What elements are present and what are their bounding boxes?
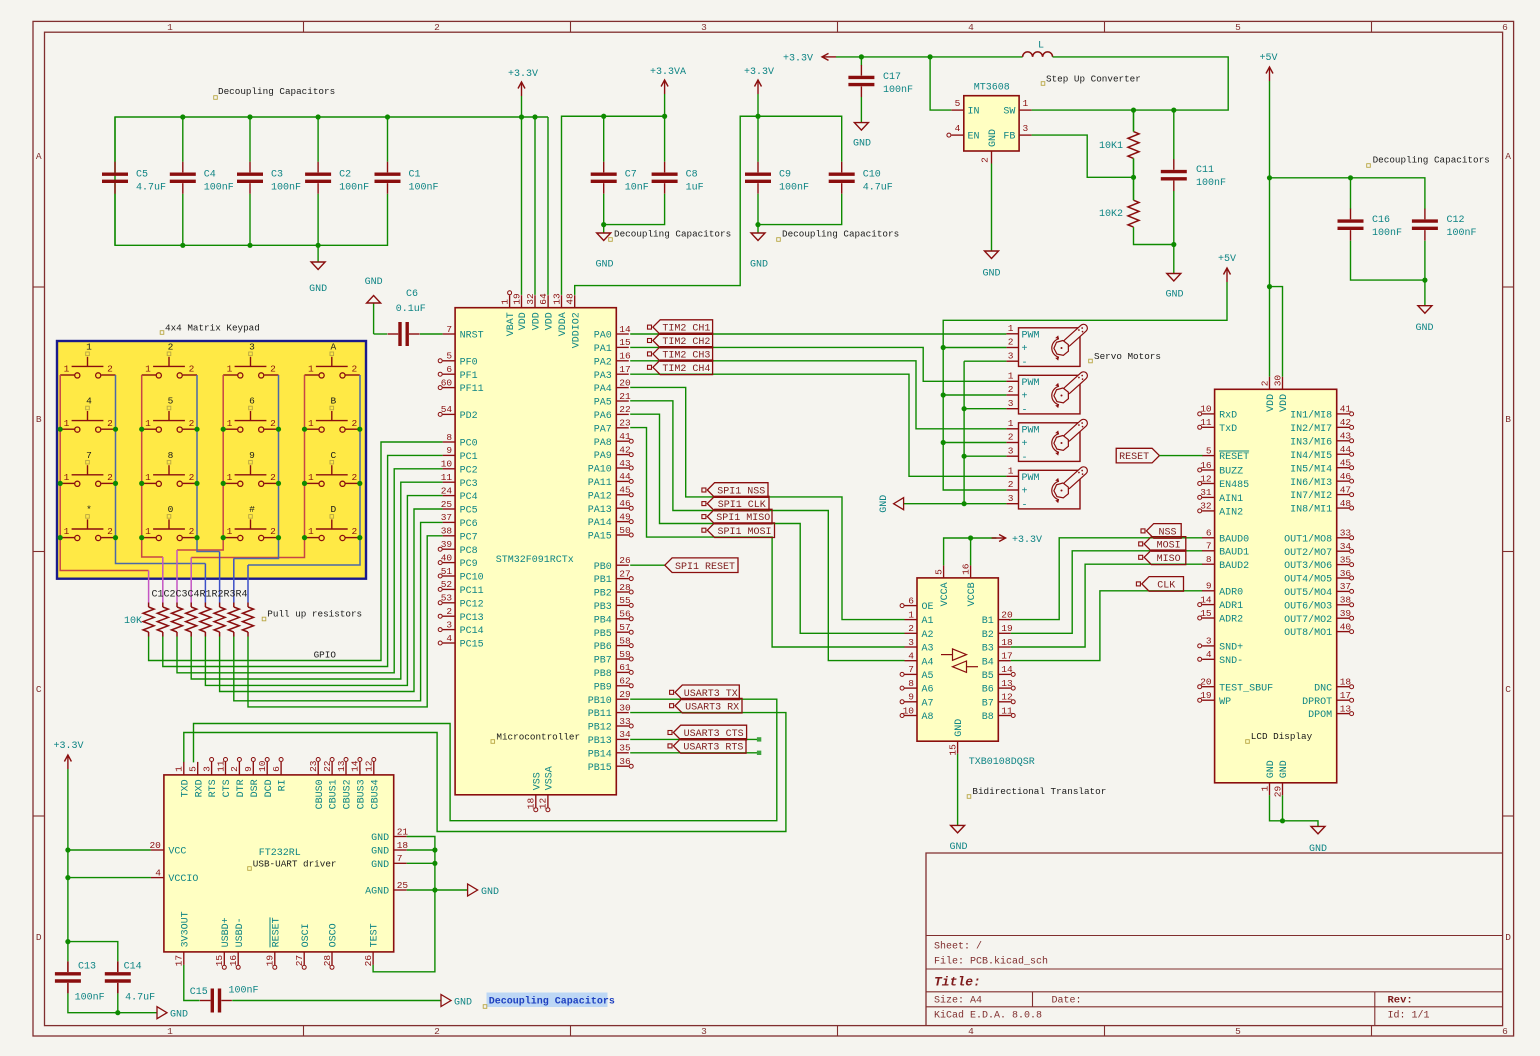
svg-text:5: 5 xyxy=(1235,1026,1241,1037)
svg-text:18: 18 xyxy=(1340,677,1352,688)
svg-text:B: B xyxy=(36,414,42,425)
svg-text:2: 2 xyxy=(107,364,113,375)
wire xyxy=(1032,57,1229,110)
svg-text:Decoupling Capacitors: Decoupling Capacitors xyxy=(614,229,731,240)
svg-text:L: L xyxy=(1038,41,1044,52)
svg-text:PD2: PD2 xyxy=(460,411,478,422)
svg-text:32: 32 xyxy=(1200,501,1212,512)
svg-text:B4: B4 xyxy=(982,657,994,668)
text note: Servo Motors xyxy=(1089,351,1161,363)
svg-text:PWM: PWM xyxy=(1022,330,1040,341)
svg-text:GND: GND xyxy=(309,284,327,295)
power +3.3VA xyxy=(650,67,686,94)
wire xyxy=(176,550,178,603)
svg-text:4: 4 xyxy=(908,651,914,662)
svg-text:100nF: 100nF xyxy=(229,986,259,997)
text note: LCD Display xyxy=(1246,731,1313,743)
svg-text:AIN2: AIN2 xyxy=(1219,508,1243,519)
wire xyxy=(964,408,1006,410)
svg-text:IN2/MI7: IN2/MI7 xyxy=(1290,423,1332,435)
svg-text:3V3OUT: 3V3OUT xyxy=(180,911,191,947)
svg-text:22: 22 xyxy=(619,404,631,415)
svg-text:RESET: RESET xyxy=(271,917,282,947)
svg-text:23: 23 xyxy=(308,760,319,772)
global label USART3 RX xyxy=(670,698,742,713)
svg-text:OUT5/MO4: OUT5/MO4 xyxy=(1284,587,1332,599)
wire xyxy=(991,164,993,252)
svg-text:GND: GND xyxy=(853,139,871,150)
svg-text:2: 2 xyxy=(351,526,357,537)
wire xyxy=(68,942,118,962)
svg-text:-: - xyxy=(1022,500,1028,511)
svg-text:30: 30 xyxy=(619,702,631,713)
wire xyxy=(1159,455,1202,457)
svg-text:IN5/MI4: IN5/MI4 xyxy=(1290,463,1332,475)
svg-text:Title:: Title: xyxy=(934,975,981,990)
svg-text:MISO: MISO xyxy=(1157,554,1181,565)
svg-text:GND: GND xyxy=(988,129,999,147)
junction xyxy=(432,847,437,852)
svg-text:PC2: PC2 xyxy=(460,465,478,476)
svg-text:D: D xyxy=(1505,932,1511,943)
svg-text:B: B xyxy=(330,396,336,407)
wire xyxy=(630,428,904,647)
svg-text:C12: C12 xyxy=(1447,215,1465,226)
svg-text:+: + xyxy=(1022,392,1028,403)
svg-text:5: 5 xyxy=(955,98,961,109)
junction xyxy=(385,114,390,119)
svg-text:VCCIO: VCCIO xyxy=(168,874,198,885)
wire xyxy=(116,375,206,564)
svg-text:26: 26 xyxy=(363,955,374,967)
svg-text:A4: A4 xyxy=(922,657,934,668)
text note: GPIO xyxy=(314,650,337,661)
svg-text:B6: B6 xyxy=(982,685,994,696)
svg-text:B2: B2 xyxy=(982,630,994,641)
wire xyxy=(184,713,786,832)
svg-text:16: 16 xyxy=(619,351,631,362)
svg-text:VDD: VDD xyxy=(518,312,529,330)
svg-text:18: 18 xyxy=(1001,637,1013,648)
svg-text:PB3: PB3 xyxy=(594,602,612,613)
svg-text:10: 10 xyxy=(1200,404,1212,415)
svg-text:B: B xyxy=(1505,414,1511,425)
svg-text:100nF: 100nF xyxy=(883,85,913,96)
power +3.3V xyxy=(744,67,774,94)
wire xyxy=(67,769,69,961)
junction xyxy=(755,222,760,227)
svg-text:BUZZ: BUZZ xyxy=(1219,467,1243,478)
capacitor C1 100nF xyxy=(375,162,439,194)
svg-text:PB13: PB13 xyxy=(588,736,612,747)
svg-text:18: 18 xyxy=(397,840,409,851)
svg-text:RXD: RXD xyxy=(194,779,205,797)
svg-text:C7: C7 xyxy=(625,169,637,180)
global label TIM2 CH3 xyxy=(648,347,713,362)
global label TIM2 CH1 xyxy=(648,320,713,335)
wire xyxy=(317,245,319,262)
svg-text:4: 4 xyxy=(955,123,961,134)
wire xyxy=(420,333,443,335)
ground label GND xyxy=(468,884,499,898)
junction xyxy=(532,114,537,119)
junction xyxy=(113,535,118,540)
connector J3 PWM servo xyxy=(1006,418,1089,464)
power +3.3V xyxy=(53,741,83,769)
buffer symbols TXB xyxy=(941,649,978,673)
svg-text:100nF: 100nF xyxy=(1372,228,1402,239)
svg-text:28: 28 xyxy=(619,582,631,593)
svg-text:14: 14 xyxy=(350,760,361,772)
svg-text:PA14: PA14 xyxy=(588,518,612,529)
svg-text:CBUS4: CBUS4 xyxy=(370,779,381,809)
svg-text:PWM: PWM xyxy=(1022,378,1040,389)
svg-text:A6: A6 xyxy=(922,685,934,696)
svg-text:17: 17 xyxy=(1001,651,1012,662)
svg-text:13: 13 xyxy=(551,293,562,305)
svg-text:6: 6 xyxy=(1502,22,1508,33)
wire xyxy=(603,116,605,162)
junction xyxy=(1131,108,1136,113)
svg-text:17: 17 xyxy=(174,955,185,966)
svg-text:6: 6 xyxy=(249,396,255,407)
svg-text:53: 53 xyxy=(441,593,453,604)
svg-text:+3.3V: +3.3V xyxy=(744,67,774,78)
wire xyxy=(930,57,951,110)
svg-text:1: 1 xyxy=(64,526,70,537)
svg-text:DPOM: DPOM xyxy=(1308,710,1332,721)
svg-text:*: * xyxy=(86,504,92,515)
svg-text:33: 33 xyxy=(619,716,631,727)
svg-text:20: 20 xyxy=(1200,677,1212,688)
svg-text:RI: RI xyxy=(278,779,289,791)
wire xyxy=(114,117,116,162)
capacitor C16 100nF xyxy=(1338,209,1403,241)
svg-text:6: 6 xyxy=(908,595,914,606)
svg-text:CLK: CLK xyxy=(1157,581,1175,592)
svg-text:16: 16 xyxy=(1200,460,1212,471)
junction xyxy=(115,1010,120,1015)
svg-text:19: 19 xyxy=(511,293,522,305)
svg-text:4: 4 xyxy=(446,633,452,644)
IC U? STM32F091RCTx xyxy=(438,291,633,812)
svg-text:IN3/MI6: IN3/MI6 xyxy=(1290,436,1332,448)
global label SPI1 RESET xyxy=(665,558,738,573)
svg-text:38: 38 xyxy=(441,526,453,537)
ground xyxy=(982,251,1000,280)
svg-text:8: 8 xyxy=(908,678,914,689)
svg-text:DCD: DCD xyxy=(264,779,275,797)
svg-text:2: 2 xyxy=(189,364,195,375)
svg-text:3: 3 xyxy=(1008,493,1014,504)
svg-text:2: 2 xyxy=(189,526,195,537)
svg-text:Decoupling Capacitors: Decoupling Capacitors xyxy=(218,86,335,97)
junction xyxy=(180,114,185,119)
svg-text:13: 13 xyxy=(1340,703,1352,714)
svg-text:Decoupling Capacitors: Decoupling Capacitors xyxy=(782,229,899,240)
svg-text:48: 48 xyxy=(1340,498,1352,509)
IC U? FT232RL xyxy=(149,758,408,970)
junction xyxy=(113,481,118,486)
svg-text:OUT4/MO5: OUT4/MO5 xyxy=(1284,574,1332,586)
power +3.3V xyxy=(992,535,1042,546)
svg-text:USBD-: USBD- xyxy=(235,917,246,947)
svg-text:ADR2: ADR2 xyxy=(1219,615,1243,626)
svg-text:PC5: PC5 xyxy=(460,506,478,517)
svg-text:5: 5 xyxy=(168,396,174,407)
wire xyxy=(194,699,777,821)
svg-text:A: A xyxy=(330,342,336,353)
wire xyxy=(1270,178,1425,209)
junction xyxy=(221,535,226,540)
svg-text:Date:: Date: xyxy=(1052,996,1082,1007)
svg-text:PC8: PC8 xyxy=(460,546,478,557)
svg-text:23: 23 xyxy=(619,418,631,429)
svg-text:GND: GND xyxy=(170,1010,188,1021)
junction xyxy=(1348,175,1353,180)
svg-text:OUT2/MO7: OUT2/MO7 xyxy=(1284,547,1332,559)
svg-text:2: 2 xyxy=(980,157,991,163)
svg-text:37: 37 xyxy=(1340,581,1351,592)
svg-text:C: C xyxy=(1505,684,1511,695)
svg-text:TIM2 CH4: TIM2 CH4 xyxy=(662,364,710,375)
global label SPI1 MISO xyxy=(702,509,772,524)
svg-text:5: 5 xyxy=(446,351,452,362)
switch SW keypad 6 xyxy=(223,396,278,433)
svg-text:PA3: PA3 xyxy=(594,371,612,382)
switch SW keypad B xyxy=(305,396,360,433)
junction xyxy=(180,243,185,248)
svg-text:16: 16 xyxy=(228,955,239,967)
svg-text:DSR: DSR xyxy=(250,779,261,797)
svg-text:GND: GND xyxy=(954,719,965,737)
svg-text:0.1uF: 0.1uF xyxy=(396,304,426,315)
wire xyxy=(970,538,972,565)
svg-text:7: 7 xyxy=(397,853,403,864)
svg-text:3: 3 xyxy=(701,22,707,33)
svg-text:PC12: PC12 xyxy=(460,599,484,610)
junction xyxy=(1422,278,1427,283)
capacitor C14 4.7uF xyxy=(105,961,155,1003)
svg-text:PA6: PA6 xyxy=(594,411,612,422)
svg-text:100nF: 100nF xyxy=(779,182,809,193)
wire xyxy=(219,552,221,603)
junction xyxy=(139,535,144,540)
svg-text:2: 2 xyxy=(1008,479,1014,490)
svg-text:PB4: PB4 xyxy=(594,615,612,626)
svg-text:B1: B1 xyxy=(982,616,994,627)
svg-text:GND: GND xyxy=(365,277,383,288)
wire xyxy=(860,97,862,123)
svg-text:14: 14 xyxy=(1001,664,1013,675)
svg-text:35: 35 xyxy=(1340,554,1352,565)
svg-text:46: 46 xyxy=(1340,471,1352,482)
svg-text:VSS: VSS xyxy=(532,772,543,790)
wire xyxy=(249,194,251,246)
power +5V xyxy=(1259,53,1277,81)
svg-text:Decoupling Capacitors: Decoupling Capacitors xyxy=(489,996,615,1008)
wire xyxy=(407,849,435,851)
svg-text:3: 3 xyxy=(908,637,914,648)
svg-text:KiCad E.D.A. 8.0.8: KiCad E.D.A. 8.0.8 xyxy=(934,1010,1042,1022)
junction xyxy=(941,345,946,350)
global label USART3 CTS xyxy=(668,725,747,740)
svg-text:7: 7 xyxy=(908,664,914,675)
svg-text:C3: C3 xyxy=(271,169,283,180)
switch SW keypad 1 xyxy=(60,342,115,379)
svg-text:GND: GND xyxy=(371,833,389,844)
junction xyxy=(928,54,933,59)
wire xyxy=(904,503,965,505)
svg-text:TXD: TXD xyxy=(180,779,191,797)
wire xyxy=(60,375,148,571)
resistor xyxy=(186,603,197,637)
svg-text:B8: B8 xyxy=(982,712,994,723)
switch SW keypad 7 xyxy=(60,450,115,487)
svg-text:VDD: VDD xyxy=(1279,394,1290,412)
svg-text:4x4 Matrix Keypad: 4x4 Matrix Keypad xyxy=(165,323,260,334)
svg-text:OSCI: OSCI xyxy=(301,923,312,947)
svg-text:41: 41 xyxy=(619,431,631,442)
svg-text:+3.3V: +3.3V xyxy=(783,54,813,65)
svg-text:5: 5 xyxy=(188,766,199,772)
wire xyxy=(943,282,1227,490)
text note: USB-UART driver xyxy=(248,859,337,871)
svg-text:3: 3 xyxy=(249,342,255,353)
svg-text:+: + xyxy=(1022,487,1028,498)
svg-text:16: 16 xyxy=(960,563,971,575)
svg-text:5: 5 xyxy=(1235,22,1241,33)
svg-text:PA13: PA13 xyxy=(588,505,612,516)
svg-text:20: 20 xyxy=(619,377,631,388)
wire xyxy=(247,565,249,603)
ground xyxy=(1415,306,1433,334)
wire xyxy=(534,117,536,295)
svg-text:26: 26 xyxy=(619,555,631,566)
svg-text:2: 2 xyxy=(434,1026,440,1037)
capacitor C5 4.7uF xyxy=(102,162,166,194)
svg-text:PC7: PC7 xyxy=(460,532,478,543)
svg-text:15: 15 xyxy=(619,337,631,348)
svg-text:PC15: PC15 xyxy=(460,640,484,651)
svg-text:PWM: PWM xyxy=(1022,425,1040,436)
svg-text:1: 1 xyxy=(174,766,185,772)
svg-text:100nF: 100nF xyxy=(339,182,369,193)
svg-text:BAUD0: BAUD0 xyxy=(1219,534,1249,545)
junction xyxy=(601,114,606,119)
svg-text:17: 17 xyxy=(619,364,630,375)
svg-text:25: 25 xyxy=(441,499,453,510)
svg-text:D: D xyxy=(330,504,336,515)
svg-text:MT3608: MT3608 xyxy=(974,83,1010,94)
svg-text:PC9: PC9 xyxy=(460,559,478,570)
svg-text:B7: B7 xyxy=(982,698,994,709)
resistor xyxy=(200,603,211,637)
svg-text:13: 13 xyxy=(1001,678,1013,689)
svg-text:2: 2 xyxy=(1259,380,1270,386)
junction xyxy=(302,535,307,540)
svg-text:PF1: PF1 xyxy=(460,371,478,382)
svg-text:PC0: PC0 xyxy=(460,439,478,450)
svg-text:2: 2 xyxy=(107,418,113,429)
svg-text:2: 2 xyxy=(351,364,357,375)
wire xyxy=(943,347,1006,349)
svg-text:USBD+: USBD+ xyxy=(221,917,232,947)
svg-text:7: 7 xyxy=(86,450,92,461)
junction xyxy=(221,427,226,432)
svg-text:3: 3 xyxy=(201,766,212,772)
svg-text:100nF: 100nF xyxy=(271,182,301,193)
resistor xyxy=(172,603,183,637)
svg-text:OUT8/MO1: OUT8/MO1 xyxy=(1284,627,1332,639)
wire xyxy=(115,117,548,245)
text note: Decoupling Capacitors xyxy=(609,229,731,242)
svg-text:1: 1 xyxy=(908,609,914,620)
svg-text:PC10: PC10 xyxy=(460,573,484,584)
svg-text:6: 6 xyxy=(1206,528,1212,539)
wire xyxy=(182,194,184,246)
svg-text:TxD: TxD xyxy=(1219,424,1237,435)
global label RESET xyxy=(1116,448,1159,463)
wire xyxy=(177,469,443,673)
wire xyxy=(943,442,1006,444)
svg-text:Rev:: Rev: xyxy=(1388,995,1413,1007)
svg-text:1: 1 xyxy=(64,418,70,429)
svg-text:Microcontroller: Microcontroller xyxy=(496,732,580,743)
svg-text:+3.3V: +3.3V xyxy=(1012,535,1042,546)
svg-text:VBAT: VBAT xyxy=(506,312,517,336)
wire xyxy=(115,194,388,246)
switch SW keypad 0 xyxy=(142,504,197,541)
svg-text:100nF: 100nF xyxy=(1447,228,1477,239)
svg-text:44: 44 xyxy=(619,471,631,482)
wire xyxy=(957,754,959,826)
svg-text:24: 24 xyxy=(441,485,453,496)
wire xyxy=(630,414,904,633)
svg-text:1: 1 xyxy=(227,526,233,537)
text note: 4x4 Matrix Keypad xyxy=(160,323,260,335)
svg-text:PA2: PA2 xyxy=(594,357,612,368)
svg-text:30: 30 xyxy=(1272,375,1283,387)
capacitor C11 100nF xyxy=(1161,159,1226,191)
wire end xyxy=(757,737,761,741)
text note: Decoupling Capacitors xyxy=(777,229,899,242)
svg-text:1: 1 xyxy=(145,418,151,429)
svg-text:100nF: 100nF xyxy=(409,182,439,193)
svg-text:VCCB: VCCB xyxy=(967,582,978,606)
svg-text:C10: C10 xyxy=(863,169,881,180)
svg-text:1: 1 xyxy=(227,418,233,429)
svg-text:AGND: AGND xyxy=(365,887,389,898)
svg-text:3: 3 xyxy=(1008,350,1014,361)
junction xyxy=(194,427,199,432)
svg-text:GND: GND xyxy=(481,887,499,898)
resistor 10K2 xyxy=(1099,200,1139,227)
text note: Pull up resistors xyxy=(262,609,362,621)
wire xyxy=(630,361,1006,429)
svg-text:C4: C4 xyxy=(204,169,216,180)
svg-text:6: 6 xyxy=(446,364,452,375)
svg-text:SND+: SND+ xyxy=(1219,643,1243,654)
wire xyxy=(964,360,1006,362)
svg-text:GND: GND xyxy=(750,260,768,271)
svg-text:42: 42 xyxy=(619,444,631,455)
junction xyxy=(194,481,199,486)
junction xyxy=(962,454,967,459)
wire xyxy=(162,557,164,603)
svg-text:PB7: PB7 xyxy=(594,656,612,667)
wire xyxy=(630,564,665,566)
